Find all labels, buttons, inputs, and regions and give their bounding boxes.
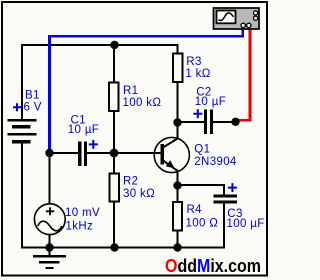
ground symbol bbox=[33, 255, 66, 269]
svg-text:100 Ω: 100 Ω bbox=[186, 218, 219, 230]
label C3 bbox=[227, 208, 265, 230]
wire R2 bottom lead bbox=[113, 202, 115, 248]
svg-text:10 µF: 10 µF bbox=[68, 124, 99, 136]
wire battery top vertical bbox=[21, 44, 23, 120]
C1 plus sign bbox=[89, 140, 98, 149]
label C1 bbox=[68, 114, 99, 136]
wire R2 top lead bbox=[113, 153, 115, 174]
wire battery bottom vertical bbox=[21, 143, 23, 249]
svg-text:R2: R2 bbox=[123, 176, 138, 188]
svg-text:10 mV: 10 mV bbox=[65, 207, 100, 219]
wire C3 top lead bbox=[223, 184, 225, 195]
label source value bbox=[65, 207, 100, 233]
label R4 bbox=[186, 204, 219, 230]
junction node F R4 bottom bbox=[173, 243, 181, 251]
svg-text:10 µF: 10 µF bbox=[195, 96, 226, 108]
svg-text:R3: R3 bbox=[186, 56, 201, 68]
resistor R1 bbox=[109, 83, 119, 112]
wire collector to C2 bbox=[178, 121, 205, 123]
wire collector vertical bbox=[177, 122, 179, 139]
resistor R2 bbox=[110, 174, 120, 202]
C2 plus sign bbox=[193, 109, 202, 118]
red wire from scope bbox=[237, 28, 250, 120]
svg-text:30 kΩ: 30 kΩ bbox=[123, 188, 155, 200]
wire R1 top drop bbox=[113, 44, 115, 82]
label R3 bbox=[185, 56, 210, 80]
wire R3 bottom to collector node bbox=[177, 83, 179, 124]
wire ground stub bbox=[49, 247, 51, 255]
wire C3 bottom lead bbox=[223, 203, 225, 249]
battery plus sign bbox=[13, 103, 21, 111]
wire bottom rail bbox=[21, 247, 224, 249]
svg-text:100 kΩ: 100 kΩ bbox=[123, 97, 162, 109]
wire R3 top drop bbox=[177, 44, 179, 54]
wire R4 top lead bbox=[177, 185, 179, 203]
label R1 bbox=[123, 85, 162, 109]
junction node C source top bbox=[45, 149, 53, 157]
capacitor C1 plates bbox=[78, 142, 87, 166]
signal source V1 circle bbox=[34, 204, 65, 235]
label B1 bbox=[24, 90, 42, 114]
capacitor C3 plates bbox=[214, 195, 238, 204]
wire source top lead bbox=[49, 153, 51, 205]
resistor R4 bbox=[173, 202, 182, 231]
svg-text:R1: R1 bbox=[123, 85, 138, 97]
oscilloscope bbox=[214, 8, 260, 29]
wire emitter to C3 bbox=[178, 184, 226, 186]
label Q1 bbox=[194, 144, 237, 168]
wire C2 right lead bbox=[213, 121, 237, 123]
junction node H emitter bbox=[173, 181, 181, 189]
svg-text:Q1: Q1 bbox=[194, 144, 210, 156]
svg-text:OddMix.com: OddMix.com bbox=[165, 256, 261, 276]
svg-text:1 kΩ: 1 kΩ bbox=[185, 68, 210, 80]
C3 plus sign bbox=[228, 183, 237, 192]
capacitor C2 plates bbox=[204, 110, 213, 135]
junction node I C2 output bbox=[231, 118, 239, 126]
wire emitter vertical bbox=[177, 171, 179, 187]
junction node D ground bbox=[45, 243, 53, 251]
junction node B base bbox=[110, 149, 119, 158]
battery B1 plates bbox=[8, 119, 37, 144]
label R2 bbox=[123, 176, 155, 200]
resistor R3 bbox=[173, 54, 183, 83]
junction node G collector bbox=[173, 118, 181, 126]
blue wire to scope bbox=[50, 28, 243, 152]
svg-text:100 µF: 100 µF bbox=[227, 218, 265, 230]
wire R1 bottom to base node bbox=[113, 112, 115, 154]
svg-text:B1: B1 bbox=[25, 90, 40, 102]
junction node A top rail bbox=[110, 41, 118, 49]
svg-text:R4: R4 bbox=[187, 204, 203, 216]
label C2 bbox=[195, 87, 226, 108]
transistor Q1 bbox=[154, 137, 189, 172]
svg-text:1kHz: 1kHz bbox=[66, 221, 94, 233]
svg-text:2N3904: 2N3904 bbox=[194, 156, 237, 168]
svg-text:6 V: 6 V bbox=[24, 102, 42, 114]
wire base bbox=[114, 152, 161, 154]
wire R4 bottom lead bbox=[177, 231, 179, 248]
wire top rail horizontal bbox=[21, 44, 179, 46]
junction node E R2 bottom bbox=[110, 243, 118, 251]
wire C1 left lead bbox=[50, 152, 79, 154]
wire C1 right lead bbox=[87, 152, 115, 154]
wire source bottom lead bbox=[49, 234, 51, 248]
